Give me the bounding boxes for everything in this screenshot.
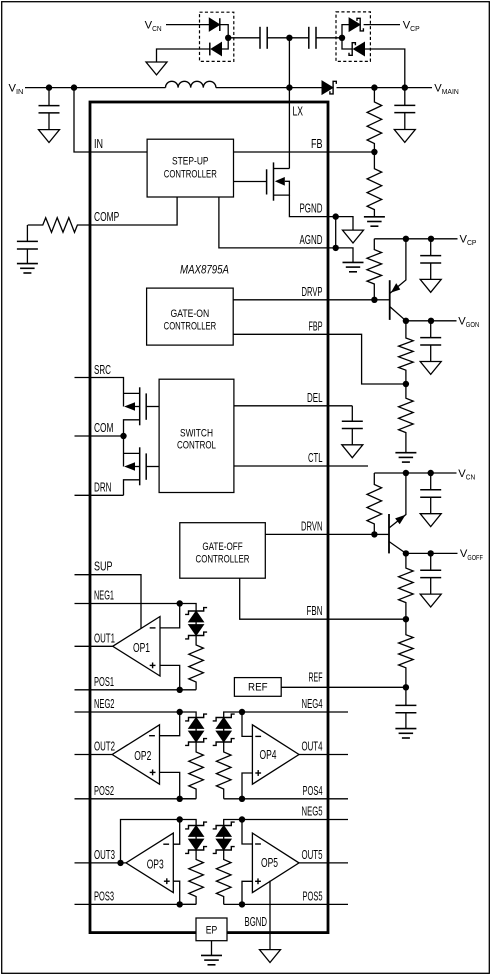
node NEG1 junction [177,600,183,606]
svg-text:GATE-ON: GATE-ON [171,308,210,320]
wire OUT5 pin [299,862,348,864]
capacitor C5 (COMP compensation) [17,225,38,264]
wire POS3 pin [75,903,197,905]
resistor R10 (OP1 feedback) [189,636,204,690]
resistor R14 (OP5 network) [216,850,231,904]
svg-text:REF: REF [309,670,323,685]
wire IN pin from VIN rail [74,88,147,152]
svg-text:DRVN: DRVN [301,518,323,533]
pin label POS1 [94,674,114,689]
resistor R9 (FBN divider bottom) [399,619,414,687]
wire OUT3 feedback to NEG5 line [121,820,197,863]
junction LX on VIN rail [286,84,292,90]
capacitor C11 (REF bypass) [395,687,416,728]
wire VGON rail [406,320,457,322]
transistor Q4 (switch nMOS upper) [124,387,160,436]
capacitor C3 (VIN bypass) [39,88,60,130]
schottky diode D1 (boost rectifier) [322,81,336,95]
svg-text:OUT3: OUT3 [94,847,115,862]
capacitor C10 (VGOFF bypass) [420,553,441,594]
wire Q3 source to PGND [289,195,335,217]
node FBP junction [403,381,409,387]
pin label OUT5 [302,847,323,862]
wire SRC pin [75,378,124,407]
pin label NEG5 [302,804,323,819]
capacitor C6 (VCP bypass) [420,239,441,280]
node FB [371,149,377,155]
svg-text:POS5: POS5 [303,888,323,903]
pin label OUT4 [302,739,323,754]
wire POS2 pin [75,798,197,800]
junction VMAIN output cap [402,84,408,90]
wire VCN rail [374,472,456,474]
wire gate drive to internal FET Q3 [234,181,267,183]
ground (VMAIN cap) [394,130,415,143]
wire NEG1 pin [75,603,180,605]
pin label SUP [94,559,113,574]
ground (DEL cap) [342,445,363,458]
wire REF pin [281,686,406,688]
resistor R5 (FBP divider top) [399,321,414,384]
pin label FBN [307,603,323,618]
wire POS1 to OP1 non-inverting input [160,665,180,689]
ground (REF cap) [395,729,416,738]
resistor R8 (FBN divider top) [399,553,414,619]
svg-text:POS4: POS4 [303,783,323,798]
svg-text:VGOFF: VGOFF [460,548,483,562]
pin label OUT3 [94,847,115,862]
svg-text:PGND: PGND [300,201,323,216]
protection diode pair Z3 [213,714,235,745]
ground (FBP divider) [395,453,416,462]
wire NEG5 to OP5 inverting input [242,820,252,845]
svg-text:REF: REF [248,682,268,694]
wire node N1 down to D3 anode [222,38,229,49]
wire DRN pin [75,494,124,496]
svg-text:IN: IN [94,136,103,151]
wire VCN to charge-pump diode D2 anode [166,24,209,26]
wire NEG1 to OP1 inverting input [160,604,180,628]
junction VCP / Q1 emitter [403,236,409,242]
wire DRVN output [265,533,374,535]
pin label DRVP [302,284,323,299]
pin label POS2 [94,783,114,798]
wire D1 cathode to VMAIN [337,87,433,89]
svg-text:POS2: POS2 [94,783,114,798]
net label VCP (right) [460,234,477,248]
wire LX node to flying capacitor C2 [289,37,308,39]
resistor R7 (Q2 base pull) [367,473,382,534]
wire D5 anode to VMAIN rail [364,49,405,88]
node REF junction [403,684,409,690]
transistor Q3 (internal nMOS power switch) [267,162,290,200]
wire AGND to ground [336,248,353,263]
pin label POS5 [303,888,323,903]
pin label DRVN [301,518,323,533]
wire R12 bottom to POS4 [224,798,242,800]
svg-text:BGND: BGND [245,914,268,929]
capacitor C1 (flying cap) [260,27,267,49]
pin label COMP [94,209,119,224]
schottky diode D5 (VCP pump, bottom) [349,42,365,56]
ground (VGOFF cap) [420,594,441,607]
node Q1 base [371,297,377,303]
node OP3 inverting junction [177,816,183,822]
junction FB divider top [371,84,377,90]
svg-text:OP1: OP1 [133,641,150,655]
wire R13 to POS3 [180,903,196,905]
op-amp OP2 [112,725,159,784]
node POS2 junction [177,796,183,802]
capacitor C4 (VMAIN output) [394,88,415,130]
pin label IN [94,136,103,151]
svg-text:AGND: AGND [300,232,323,247]
pin label LX [293,104,304,119]
svg-text:POS1: POS1 [94,674,114,689]
pin label POS4 [303,783,323,798]
wire POS5 pin [242,903,348,905]
wire DRVP output [233,299,374,301]
inductor L1 (boost) [166,81,216,87]
resistor R13 (OP3 network) [189,850,204,904]
function block SWITCH CONTROL [159,379,234,492]
protection diode pair Z1 [185,608,207,639]
wire EP to ground [211,941,213,956]
diode D2 (VCN pump, top) [209,18,220,31]
pin label PGND [300,201,323,216]
wire D3 cathode to ground [157,49,210,62]
pin label COM [94,420,114,435]
wire COMP internal to controller [90,197,177,225]
node Q2 base [371,531,377,537]
svg-text:FBP: FBP [309,318,323,333]
ground (VCN cap) [420,514,441,527]
node NEG4 junction [239,709,245,715]
svg-text:EP: EP [206,925,218,937]
resistor R12 (OP4 network) [216,742,231,799]
net label VIN [9,82,24,96]
node PGND external [333,213,339,219]
svg-text:DRVP: DRVP [302,284,323,299]
svg-text:NEG5: NEG5 [302,804,323,819]
svg-text:CONTROL: CONTROL [177,440,216,452]
svg-text:OP4: OP4 [260,748,277,762]
protection diode pair Z5 [213,822,235,853]
junction VGOFF cap [428,550,434,556]
pin label AGND [300,232,323,247]
svg-text:CONTROLLER: CONTROLLER [196,554,250,566]
node POS4 junction [239,796,245,802]
wire VIN rail left segment [25,87,166,89]
wire POS2 to OP2 non-inverting input [160,772,180,798]
ground (PGND) [343,230,364,243]
resistor R11 (OP2 network) [189,742,204,799]
ground (VCN pump return) [146,62,167,75]
svg-text:STEP-UP: STEP-UP [172,155,209,167]
node FBN junction [403,616,409,622]
ground (VIN bypass) [39,130,60,143]
pin label NEG4 [302,696,323,711]
junction LX top [286,35,292,41]
wire FBP route [233,334,406,384]
junction VCN cap [428,470,434,476]
resistor R3 (COMP compensation) [28,218,90,233]
junction IN pin tap [71,84,77,90]
node POS3 junction [177,901,183,907]
junction VGON cap [428,318,434,324]
svg-text:OP2: OP2 [134,749,151,763]
svg-text:DEL: DEL [307,390,323,405]
ground (AGND) [343,262,364,271]
pin label POS3 [94,888,114,903]
wire VGOFF rail [406,552,458,554]
node NEG2 junction [177,709,183,715]
wire POS1 pin [75,689,180,691]
svg-text:VCP: VCP [403,19,420,33]
pin label OUT2 [94,739,115,754]
wire POS5 to OP5 non-inverting input [242,881,252,904]
wire Z5 top to NEG5 [224,820,242,826]
svg-text:VCN: VCN [458,468,475,482]
svg-text:OP3: OP3 [147,857,164,871]
capacitor C8 (DEL timing) [342,406,363,445]
resistor R6 (FBP divider bottom) [399,384,414,453]
node AGND external [333,245,339,251]
node POS5 junction [239,901,245,907]
resistor R1 (FB divider top) [367,88,382,152]
function block GATE-OFF CONTROLLER [180,523,265,579]
junction VCP cap [428,236,434,242]
wire OUT3 pin [75,862,127,864]
op-amp OP3 [126,833,173,893]
wire AGND from controller [219,197,336,248]
wire OUT4 pin [299,754,348,756]
svg-text:VMAIN: VMAIN [434,82,458,96]
wire node N1 to flying capacitor C1 [228,37,260,39]
svg-text:COM: COM [94,420,114,435]
wire Z3 top to NEG4 [224,712,242,718]
wire D2 cathode to node N1 [220,25,228,38]
wire POS4 to OP4 non-inverting input [242,773,252,799]
svg-text:SRC: SRC [94,362,111,377]
net label VMAIN [434,82,458,96]
node COM junction [120,433,126,439]
net label VCN (top charge pump input) [145,19,162,33]
op-amp OP5 [252,833,299,893]
svg-text:NEG1: NEG1 [94,588,114,603]
function block STEP-UP CONTROLLER [147,139,233,197]
pad EP (exposed pad) [196,918,227,941]
op-amp OP1 [113,617,160,677]
transistor Q2 (NPN, VGOFF clamp) [374,473,406,553]
wire NEG2 pin [75,712,197,718]
svg-text:SWITCH: SWITCH [180,427,213,439]
pin label CTL [308,450,323,465]
wire R11 to POS2 [180,798,196,800]
transistor Q1 (PNP, VGON clamp) [374,239,406,321]
dashed box charge-pump diode pair D2/D3 [200,12,234,61]
svg-text:VIN: VIN [9,82,24,96]
pin label REF [309,670,323,685]
capacitor C7 (VGON bypass) [420,321,441,362]
svg-text:OUT5: OUT5 [302,847,323,862]
ground (EP) [201,955,222,964]
ground (FB divider) [364,217,385,226]
pin label FB [311,136,323,151]
wire VCP rail [374,238,457,240]
wire NEG4 pin [242,711,348,713]
junction VCN / Q2 emitter [403,470,409,476]
junction VGOFF / Q2 collector [403,550,409,556]
wire node N2 down to D5 cathode [342,38,352,49]
node N2 junction [339,35,345,41]
ground (COMP network) [17,264,38,273]
ground (VCP cap) [420,279,441,292]
svg-text:GATE-OFF: GATE-OFF [202,541,243,553]
svg-text:OUT2: OUT2 [94,739,115,754]
svg-text:OUT1: OUT1 [94,630,115,645]
wire FB from controller to external divider [234,151,375,153]
pin label SRC [94,362,111,377]
ground (BGND) [260,950,281,963]
wire FBN route [240,578,406,619]
svg-text:VGON: VGON [458,316,479,330]
ground (VGON cap) [420,362,441,375]
IC part label MAX8795A [180,263,229,277]
svg-text:POS3: POS3 [94,888,114,903]
svg-text:VCN: VCN [145,19,162,33]
svg-text:VCP: VCP [460,234,477,248]
pin label BGND [245,914,268,929]
capacitor C9 (VCN bypass) [420,473,441,514]
op-amp/controller IC U1 MAX8795A body [90,102,328,933]
pin label OUT1 [94,630,115,645]
node OUT3 junction [117,860,123,866]
schottky diode D4 (VCP pump, top) [349,18,363,32]
wire to OP3 inverting input [173,820,179,845]
svg-text:FBN: FBN [307,603,323,618]
wire R10 to POS1 [180,689,196,691]
net label VCN (right) [458,468,475,482]
wire C1 to LX node [267,37,289,39]
wire NEG2 to OP2 inverting input [160,712,180,736]
wire POS3 to OP3 non-inverting input [173,881,179,904]
wire OUT1 pin [75,645,113,647]
svg-text:NEG4: NEG4 [302,696,323,711]
wire PGND-AGND tie [335,217,337,248]
wire PGND to ground [336,217,353,231]
wire COM pin [75,435,124,437]
wire C2 to node N2 [316,37,342,39]
node NEG5 junction [239,816,245,822]
net label VGON [458,316,479,330]
svg-text:FB: FB [311,136,323,151]
op-amp OP4 [252,725,299,784]
svg-text:NEG2: NEG2 [94,696,115,711]
wire POS4 pin [242,798,348,800]
net label VCP (top) [403,19,420,33]
svg-text:CTL: CTL [308,450,323,465]
junction VIN bypass cap [46,84,52,90]
wire OUT2 pin [75,754,113,756]
wire NEG4 to OP4 inverting input [242,712,252,736]
capacitor C2 (flying cap) [309,27,316,49]
function block GATE-ON CONTROLLER [147,288,234,345]
svg-text:OUT4: OUT4 [302,739,323,754]
svg-text:MAX8795A: MAX8795A [180,263,229,277]
node N1 junction [225,35,231,41]
function block REF [234,678,281,697]
wire node N2 up to D4 anode [342,25,349,38]
svg-text:LX: LX [293,104,304,119]
resistor R2 (FB divider bottom) [367,152,382,217]
net label VGOFF [460,548,483,562]
pin label NEG1 [94,588,114,603]
svg-text:OP5: OP5 [261,856,278,870]
transistor Q5 (switch nMOS lower) [124,447,160,495]
wire DEL pin [234,405,352,407]
svg-text:CONTROLLER: CONTROLLER [164,320,217,332]
svg-text:COMP: COMP [94,209,119,224]
pin label NEG2 [94,696,115,711]
wire D4 cathode to VCP [364,24,400,26]
wire NEG5 pin [242,819,348,821]
diode D3 (VCN pump, bottom) [210,42,222,55]
node POS1 junction [177,687,183,693]
svg-text:DRN: DRN [94,479,112,494]
junction VGON / Q1 collector [403,318,409,324]
dashed box charge-pump diode pair D4/D5 [336,12,370,62]
protection diode pair Z2 [185,714,207,745]
wire COM to Q5 [123,436,125,467]
wire BGND from OP5 ground [269,881,271,950]
resistor R4 (Q1 base pull-up) [367,239,382,300]
svg-text:CONTROLLER: CONTROLLER [164,168,217,180]
wire NEG1 to zener chain Z1 [180,604,196,612]
pin label DRN [94,479,112,494]
protection diode pair Z4 [185,822,207,853]
wire SUP pin to OP1 supply [75,575,142,629]
wire inductor to LX / diode D1 [216,87,322,89]
wire CTL pin stub [234,465,368,467]
pin label FBP [309,318,323,333]
svg-text:SUP: SUP [94,559,113,574]
wire LX vertical (pump node to internal FET drain) [288,38,290,169]
pin label DEL [307,390,323,405]
wire R14 bottom to POS5 [224,903,242,905]
